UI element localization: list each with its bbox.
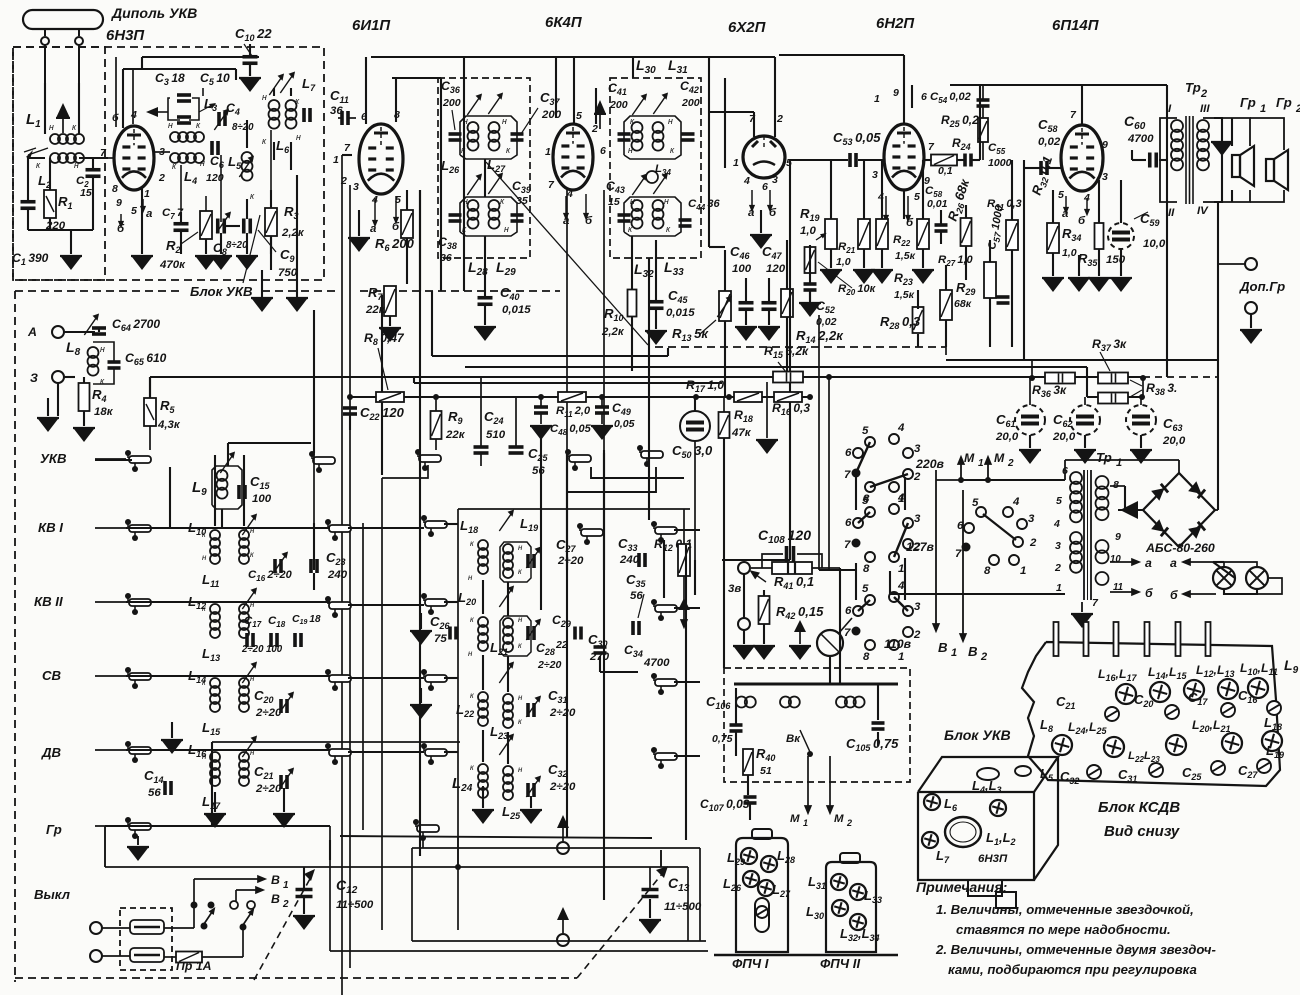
svg-text:7: 7 bbox=[955, 548, 962, 560]
svg-text:а: а bbox=[146, 208, 153, 220]
svg-text:0,02: 0,02 bbox=[1038, 136, 1061, 148]
svg-text:6: 6 bbox=[957, 520, 964, 532]
svg-text:З: З bbox=[30, 371, 38, 385]
svg-text:Доп.Гр: Доп.Гр bbox=[1239, 279, 1285, 294]
svg-text:R20 10к: R20 10к bbox=[838, 283, 877, 297]
svg-text:22к: 22к bbox=[445, 429, 466, 441]
svg-text:R41 0,1: R41 0,1 bbox=[774, 574, 814, 591]
svg-text:н: н bbox=[168, 120, 173, 130]
svg-text:1,5к: 1,5к bbox=[894, 289, 915, 301]
svg-text:3: 3 bbox=[914, 443, 921, 455]
svg-text:C1 390: C1 390 bbox=[12, 251, 49, 267]
svg-text:51: 51 bbox=[760, 765, 772, 777]
svg-text:3: 3 bbox=[1028, 513, 1035, 525]
svg-text:к: к bbox=[518, 717, 522, 726]
svg-text:6К4П: 6К4П bbox=[545, 14, 583, 31]
svg-text:2÷20: 2÷20 bbox=[255, 783, 282, 795]
svg-text:C3 18: C3 18 bbox=[155, 71, 185, 87]
svg-text:3: 3 bbox=[772, 174, 778, 186]
svg-text:к: к bbox=[470, 615, 474, 624]
svg-text:R13 5к: R13 5к bbox=[672, 326, 709, 343]
svg-text:б: б bbox=[1078, 215, 1086, 227]
svg-text:Гр: Гр bbox=[1276, 95, 1292, 110]
svg-text:н: н bbox=[664, 196, 669, 206]
svg-text:9: 9 bbox=[893, 87, 899, 99]
svg-text:Диполь УКВ: Диполь УКВ bbox=[111, 5, 197, 21]
svg-text:6: 6 bbox=[600, 145, 606, 157]
svg-text:C65 610: C65 610 bbox=[125, 351, 167, 367]
svg-text:7: 7 bbox=[844, 627, 851, 639]
svg-text:10: 10 bbox=[1110, 554, 1121, 565]
svg-text:R42 0,15: R42 0,15 bbox=[776, 604, 824, 621]
svg-text:4700: 4700 bbox=[1127, 133, 1154, 145]
svg-text:47к: 47к bbox=[731, 427, 752, 439]
svg-text:5: 5 bbox=[862, 583, 869, 595]
svg-text:Блок КСДВ: Блок КСДВ bbox=[1098, 799, 1180, 816]
svg-text:н: н bbox=[518, 543, 523, 552]
svg-text:3: 3 bbox=[914, 513, 921, 525]
svg-text:5: 5 bbox=[1056, 495, 1062, 507]
svg-text:R27 1,0: R27 1,0 bbox=[938, 254, 974, 268]
svg-text:ставятся по мере надобности.: ставятся по мере надобности. bbox=[956, 922, 1171, 937]
svg-text:3: 3 bbox=[353, 181, 359, 193]
svg-text:3: 3 bbox=[1102, 171, 1108, 183]
svg-text:н: н bbox=[518, 765, 523, 774]
svg-text:б: б bbox=[1170, 588, 1178, 602]
svg-text:2÷20: 2÷20 bbox=[537, 659, 562, 671]
svg-text:510: 510 bbox=[486, 429, 506, 441]
svg-text:н: н bbox=[630, 196, 635, 206]
svg-text:C22 120: C22 120 bbox=[360, 405, 405, 422]
svg-text:56: 56 bbox=[148, 787, 161, 799]
svg-text:8: 8 bbox=[112, 183, 118, 195]
svg-text:C54 0,02: C54 0,02 bbox=[930, 91, 971, 105]
svg-text:110в: 110в bbox=[884, 637, 912, 651]
svg-text:III: III bbox=[1200, 103, 1210, 115]
svg-text:1,0: 1,0 bbox=[836, 256, 851, 268]
svg-text:5: 5 bbox=[972, 497, 979, 509]
svg-text:2: 2 bbox=[340, 175, 347, 187]
svg-text:н: н bbox=[200, 158, 205, 168]
svg-text:4,3к: 4,3к bbox=[157, 419, 181, 431]
svg-text:4: 4 bbox=[897, 492, 905, 504]
svg-text:В: В bbox=[938, 640, 948, 655]
svg-text:Блок УКВ: Блок УКВ bbox=[190, 284, 253, 299]
svg-text:35: 35 bbox=[516, 195, 528, 207]
svg-text:0,05: 0,05 bbox=[614, 418, 635, 430]
svg-text:1: 1 bbox=[1260, 103, 1266, 115]
svg-text:200: 200 bbox=[609, 99, 628, 111]
svg-text:R11 2,0: R11 2,0 bbox=[556, 405, 591, 419]
svg-text:В: В bbox=[271, 892, 280, 906]
svg-text:C48 0,05: C48 0,05 bbox=[550, 423, 592, 437]
svg-text:1. Величины, отмеченные звездо: 1. Величины, отмеченные звездочкой, bbox=[936, 902, 1194, 917]
svg-text:11÷500: 11÷500 bbox=[664, 901, 702, 913]
svg-text:А: А bbox=[27, 325, 37, 339]
svg-text:2÷20: 2÷20 bbox=[549, 781, 576, 793]
svg-text:6И1П: 6И1П bbox=[352, 17, 391, 34]
svg-text:II: II bbox=[1168, 207, 1175, 219]
svg-text:6: 6 bbox=[845, 517, 852, 529]
svg-text:200: 200 bbox=[681, 97, 700, 109]
svg-text:1: 1 bbox=[978, 458, 984, 469]
svg-text:1: 1 bbox=[1020, 565, 1026, 577]
svg-text:КВ I: КВ I bbox=[38, 520, 63, 535]
svg-text:АБС-80-260: АБС-80-260 bbox=[1145, 541, 1215, 555]
svg-text:1000: 1000 bbox=[988, 157, 1012, 169]
svg-text:к: к bbox=[470, 539, 474, 548]
svg-text:к: к bbox=[202, 604, 206, 613]
svg-text:C64 2700: C64 2700 bbox=[112, 317, 160, 333]
svg-text:н: н bbox=[202, 752, 207, 761]
svg-text:4700: 4700 bbox=[643, 657, 670, 669]
svg-text:н: н bbox=[502, 116, 507, 126]
svg-text:6Н3П: 6Н3П bbox=[978, 853, 1008, 865]
svg-text:8: 8 bbox=[863, 651, 870, 663]
svg-text:Блок УКВ: Блок УКВ bbox=[944, 727, 1011, 743]
svg-text:2: 2 bbox=[1200, 88, 1207, 100]
svg-text:н: н bbox=[463, 116, 468, 126]
svg-text:2: 2 bbox=[980, 651, 987, 663]
svg-text:4: 4 bbox=[743, 175, 750, 187]
svg-text:3: 3 bbox=[914, 601, 921, 613]
svg-text:150: 150 bbox=[1106, 254, 1126, 266]
svg-text:R17 1,0: R17 1,0 bbox=[686, 378, 724, 394]
svg-text:4: 4 bbox=[897, 580, 905, 592]
svg-text:5: 5 bbox=[914, 191, 920, 203]
svg-text:750: 750 bbox=[278, 267, 298, 279]
svg-text:6Н3П: 6Н3П bbox=[106, 27, 145, 44]
svg-text:11÷500: 11÷500 bbox=[336, 899, 374, 911]
svg-text:100: 100 bbox=[252, 493, 272, 505]
svg-text:0,1: 0,1 bbox=[938, 165, 953, 177]
svg-text:470к: 470к bbox=[159, 259, 186, 271]
svg-text:СВ: СВ bbox=[42, 668, 62, 683]
svg-text:C5 10: C5 10 bbox=[200, 71, 230, 87]
svg-text:6П14П: 6П14П bbox=[1052, 17, 1100, 34]
svg-text:56: 56 bbox=[532, 465, 545, 477]
svg-text:5: 5 bbox=[576, 110, 582, 122]
svg-text:R28 0,3: R28 0,3 bbox=[880, 314, 921, 331]
svg-text:220в: 220в bbox=[915, 457, 945, 471]
svg-text:8: 8 bbox=[984, 565, 991, 577]
svg-text:C16 2÷20: C16 2÷20 bbox=[248, 569, 293, 583]
svg-text:20,0: 20,0 bbox=[995, 431, 1019, 443]
svg-text:5: 5 bbox=[862, 495, 869, 507]
svg-text:7: 7 bbox=[844, 539, 851, 551]
svg-text:R15 6,2к: R15 6,2к bbox=[764, 344, 809, 360]
svg-text:8: 8 bbox=[1113, 479, 1119, 491]
svg-text:R16 0,3: R16 0,3 bbox=[772, 401, 810, 417]
svg-text:20,0: 20,0 bbox=[1162, 435, 1186, 447]
svg-text:2: 2 bbox=[776, 113, 783, 125]
svg-text:2: 2 bbox=[913, 629, 921, 641]
svg-text:6: 6 bbox=[921, 91, 927, 103]
svg-text:C107 0,03: C107 0,03 bbox=[700, 797, 750, 813]
svg-text:2: 2 bbox=[591, 123, 598, 135]
svg-text:4: 4 bbox=[1012, 496, 1020, 508]
svg-text:1: 1 bbox=[545, 146, 551, 158]
svg-text:0,015: 0,015 bbox=[502, 304, 531, 316]
svg-text:н: н bbox=[296, 132, 301, 142]
svg-text:ФПЧ II: ФПЧ II bbox=[820, 956, 860, 971]
svg-text:М: М bbox=[834, 813, 844, 825]
svg-text:М: М bbox=[790, 813, 800, 825]
svg-text:1: 1 bbox=[951, 647, 957, 659]
svg-text:8÷20: 8÷20 bbox=[232, 122, 254, 133]
svg-text:Тр: Тр bbox=[1096, 450, 1112, 465]
svg-text:3в: 3в bbox=[728, 583, 741, 595]
svg-text:Гр: Гр bbox=[46, 822, 62, 837]
svg-text:127в: 127в bbox=[906, 540, 935, 554]
svg-text:н: н bbox=[628, 145, 633, 155]
svg-text:Тр: Тр bbox=[1185, 80, 1201, 95]
svg-text:5: 5 bbox=[131, 205, 137, 217]
svg-text:н: н bbox=[518, 693, 523, 702]
svg-text:к: к bbox=[470, 763, 474, 772]
svg-text:1,5к: 1,5к bbox=[895, 250, 916, 262]
svg-text:6Х2П: 6Х2П bbox=[728, 19, 767, 36]
svg-text:18к: 18к bbox=[94, 406, 114, 418]
svg-text:к: к bbox=[202, 678, 206, 687]
svg-text:22: 22 bbox=[555, 639, 568, 651]
svg-text:Примечания:: Примечания: bbox=[916, 879, 1007, 895]
svg-text:2÷20: 2÷20 bbox=[549, 707, 576, 719]
svg-text:1,0: 1,0 bbox=[1062, 247, 1077, 259]
svg-text:9: 9 bbox=[1102, 139, 1108, 151]
svg-text:1: 1 bbox=[283, 880, 289, 891]
svg-text:2: 2 bbox=[158, 172, 165, 184]
svg-text:к: к bbox=[518, 567, 522, 576]
svg-text:М: М bbox=[964, 451, 975, 465]
svg-text:0,015: 0,015 bbox=[666, 307, 695, 319]
svg-text:1: 1 bbox=[898, 651, 904, 663]
svg-text:IV: IV bbox=[1197, 205, 1209, 217]
svg-text:9: 9 bbox=[1115, 531, 1121, 543]
svg-text:н: н bbox=[504, 224, 509, 234]
svg-text:2: 2 bbox=[846, 818, 852, 828]
svg-text:75: 75 bbox=[434, 633, 447, 645]
svg-text:б: б bbox=[1145, 586, 1153, 600]
svg-text:Вид снизу: Вид снизу bbox=[1104, 823, 1180, 840]
svg-text:9: 9 bbox=[116, 197, 122, 209]
svg-text:10,0: 10,0 bbox=[1143, 238, 1166, 250]
svg-text:2: 2 bbox=[913, 471, 921, 483]
svg-text:1: 1 bbox=[874, 93, 880, 105]
svg-text:УКВ: УКВ bbox=[40, 451, 67, 466]
svg-text:15: 15 bbox=[80, 187, 92, 199]
svg-text:56: 56 bbox=[630, 590, 643, 602]
svg-text:к: к bbox=[518, 641, 522, 650]
svg-text:8÷20: 8÷20 bbox=[226, 240, 248, 251]
svg-text:Вк: Вк bbox=[786, 733, 801, 745]
svg-text:6: 6 bbox=[845, 447, 852, 459]
svg-text:15: 15 bbox=[608, 196, 620, 208]
svg-text:1: 1 bbox=[733, 157, 739, 169]
svg-text:20,0: 20,0 bbox=[1052, 431, 1076, 443]
svg-text:5: 5 bbox=[862, 425, 869, 437]
svg-text:3: 3 bbox=[1055, 540, 1061, 552]
svg-text:2: 2 bbox=[282, 899, 289, 910]
svg-text:ФПЧ I: ФПЧ I bbox=[732, 956, 769, 971]
svg-text:В: В bbox=[968, 644, 978, 659]
svg-text:1,0: 1,0 bbox=[800, 225, 817, 237]
svg-text:В: В bbox=[271, 873, 280, 887]
svg-text:н: н bbox=[468, 573, 473, 582]
svg-text:7: 7 bbox=[844, 469, 851, 481]
svg-text:4: 4 bbox=[1053, 518, 1060, 530]
svg-text:2: 2 bbox=[1029, 537, 1037, 549]
svg-text:C53 0,05: C53 0,05 bbox=[833, 130, 881, 147]
svg-text:ками, подбираются при регулиро: ками, подбираются при регулировка bbox=[948, 962, 1197, 977]
svg-text:н: н bbox=[100, 344, 105, 354]
svg-text:100: 100 bbox=[732, 263, 752, 275]
svg-text:1: 1 bbox=[898, 563, 904, 575]
svg-text:R25 0,2: R25 0,2 bbox=[941, 113, 979, 129]
svg-text:240: 240 bbox=[327, 569, 348, 581]
svg-text:C10 22: C10 22 bbox=[235, 26, 272, 43]
svg-text:2: 2 bbox=[1054, 562, 1061, 574]
svg-text:R8 0,47: R8 0,47 bbox=[364, 331, 405, 347]
svg-text:120: 120 bbox=[766, 263, 786, 275]
svg-text:2÷20: 2÷20 bbox=[255, 707, 282, 719]
svg-text:н: н bbox=[468, 649, 473, 658]
svg-text:6: 6 bbox=[845, 605, 852, 617]
svg-text:C105 0,75: C105 0,75 bbox=[846, 736, 899, 753]
svg-text:100: 100 bbox=[266, 644, 283, 655]
svg-text:1: 1 bbox=[333, 154, 339, 166]
svg-text:0,75: 0,75 bbox=[712, 733, 733, 745]
svg-text:к: к bbox=[470, 691, 474, 700]
svg-text:к: к bbox=[250, 550, 254, 559]
svg-text:200: 200 bbox=[442, 97, 461, 109]
svg-text:C44 36: C44 36 bbox=[688, 198, 720, 212]
svg-text:8: 8 bbox=[863, 563, 870, 575]
svg-text:М: М bbox=[994, 451, 1005, 465]
svg-text:2÷20: 2÷20 bbox=[557, 555, 584, 567]
svg-text:2. Величины, отмеченные двумя: 2. Величины, отмеченные двумя звездоч- bbox=[935, 942, 1216, 957]
svg-text:R14 2,2к: R14 2,2к bbox=[796, 328, 844, 345]
svg-text:2: 2 bbox=[1007, 458, 1014, 469]
svg-text:к: к bbox=[202, 530, 206, 539]
svg-text:5: 5 bbox=[1058, 189, 1064, 201]
svg-text:68к: 68к bbox=[954, 298, 972, 310]
svg-text:н: н bbox=[49, 122, 54, 132]
svg-text:240: 240 bbox=[619, 554, 640, 566]
svg-text:1: 1 bbox=[144, 188, 150, 200]
svg-text:а: а bbox=[1145, 556, 1152, 570]
svg-text:3: 3 bbox=[872, 169, 878, 181]
svg-text:Гр: Гр bbox=[1240, 95, 1256, 110]
svg-text:н: н bbox=[668, 116, 673, 126]
svg-text:C50 3,0: C50 3,0 bbox=[672, 443, 713, 460]
svg-text:6Н2П: 6Н2П bbox=[876, 15, 915, 32]
svg-text:а: а bbox=[1170, 556, 1177, 570]
svg-text:0,01: 0,01 bbox=[927, 198, 948, 210]
svg-text:2: 2 bbox=[1295, 103, 1300, 115]
svg-text:1: 1 bbox=[1116, 457, 1122, 469]
svg-text:2,2к: 2,2к bbox=[281, 227, 305, 239]
svg-text:н: н bbox=[262, 92, 267, 102]
svg-text:C19 18: C19 18 bbox=[292, 613, 321, 626]
svg-text:200: 200 bbox=[541, 109, 562, 121]
svg-text:н: н bbox=[202, 553, 207, 562]
svg-text:ДВ: ДВ bbox=[41, 745, 62, 760]
svg-text:н: н bbox=[74, 160, 79, 170]
svg-text:КВ II: КВ II bbox=[34, 594, 63, 609]
svg-text:1: 1 bbox=[803, 818, 808, 828]
svg-text:Выкл: Выкл bbox=[34, 887, 70, 902]
svg-text:6: 6 bbox=[762, 181, 768, 193]
svg-text:4: 4 bbox=[897, 422, 905, 434]
svg-text:1: 1 bbox=[1056, 582, 1062, 594]
